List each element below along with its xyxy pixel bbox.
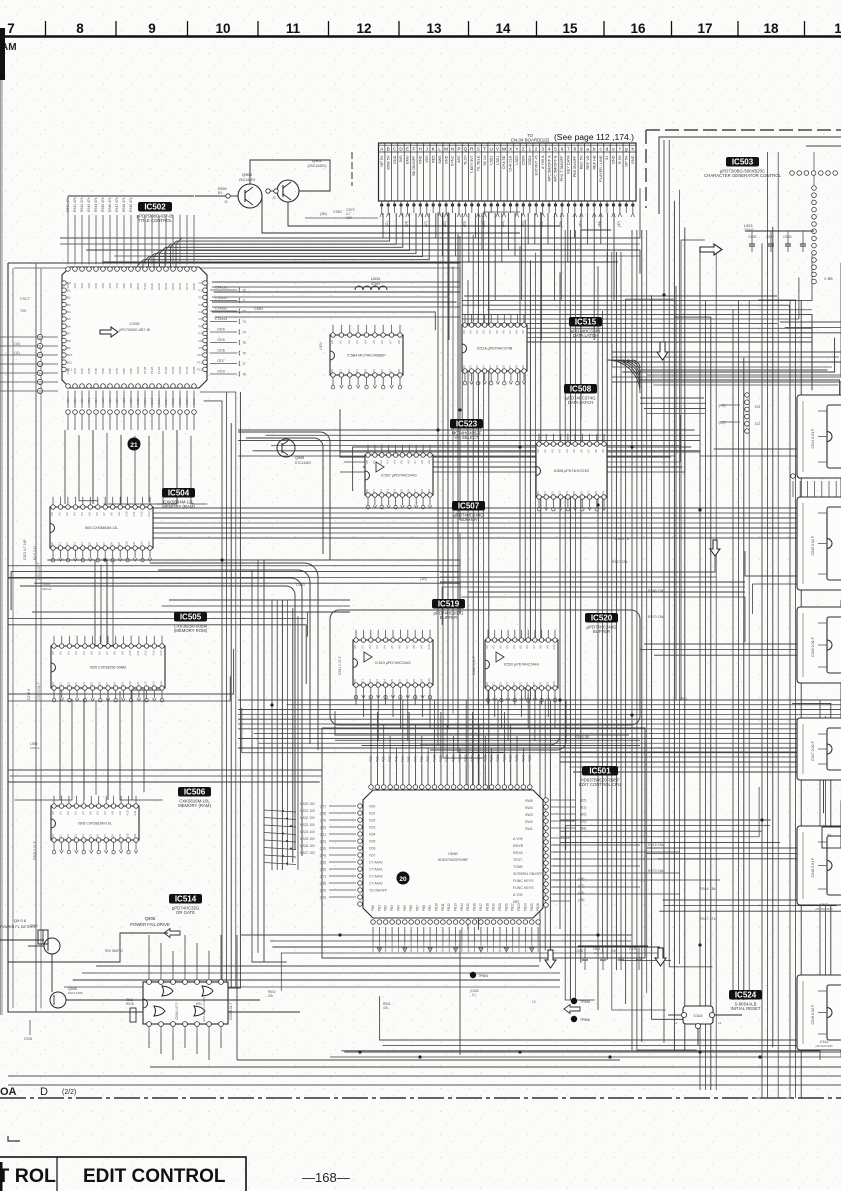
svg-text:A2: A2 (379, 460, 383, 464)
svg-text:D1: D1 (372, 489, 376, 493)
right edge DIP 3 (797, 607, 841, 683)
svg-text:D0: D0 (51, 682, 55, 686)
bus 1052 (344, 1051, 841, 1053)
svg-text:P11B: P11B (143, 367, 147, 374)
svg-text:D2: D2 (379, 489, 383, 493)
svg-text:PH2-T 5M/OFF: PH2-T 5M/OFF (560, 155, 564, 182)
svg-text:IC503: IC503 (732, 158, 754, 167)
svg-text:OD6: OD6 (217, 349, 224, 353)
svg-text:IT ROL: IT ROL (0, 1165, 56, 1187)
bus 447 ext (714, 448, 835, 450)
svg-text:L504: L504 (371, 276, 381, 281)
svg-text:A14: A14 (159, 650, 163, 656)
svg-text:(28): (28) (320, 881, 326, 885)
svg-text:D9: D9 (420, 679, 424, 683)
svg-text:A8: A8 (397, 340, 401, 344)
svg-text:P40: P40 (394, 756, 398, 762)
IC501 bottom pins (371, 920, 376, 925)
IC label IC520 (585, 613, 618, 623)
svg-text:15: 15 (562, 21, 578, 36)
svg-text:A5: A5 (519, 645, 523, 649)
svg-text:K180: K180 (192, 283, 196, 290)
svg-text:P150: P150 (464, 754, 468, 762)
IC502 QFP body (62, 267, 207, 388)
svg-text:C5B3: C5B3 (254, 307, 263, 311)
test point TP506 (571, 1016, 577, 1022)
svg-text:A10: A10 (126, 810, 130, 816)
svg-text:A0: A0 (536, 449, 540, 453)
svg-text:D6: D6 (501, 365, 505, 369)
svg-text:(MEMORY ROM): (MEMORY ROM) (174, 628, 208, 633)
svg-text:D905: D905 (30, 924, 38, 928)
svg-text:(29): (29) (320, 888, 326, 892)
svg-text:P2B: P2B (80, 368, 84, 374)
svg-text:D8: D8 (594, 491, 598, 495)
svg-text:PB17: PB17 (479, 903, 483, 911)
svg-text:SW2: SW2 (525, 820, 533, 824)
bus 770 left (8, 769, 322, 771)
IC503 pin column (812, 186, 817, 191)
bottom title box (0, 1157, 246, 1191)
svg-text:INITIAL RESET: INITIAL RESET (731, 1006, 761, 1011)
svg-text:11: 11 (286, 21, 301, 36)
svg-text:Q909: Q909 (295, 456, 304, 460)
bus 935 (241, 934, 631, 936)
svg-text:SW5: SW5 (438, 156, 442, 164)
svg-text:J2: J2 (272, 196, 276, 200)
IC506 RAM DIP (51, 796, 139, 854)
svg-text:76: 76 (242, 351, 246, 355)
svg-text:A0: A0 (51, 811, 55, 815)
IC label IC501 (582, 766, 618, 776)
Q909 transistor (277, 439, 295, 457)
svg-text:R544 15k: R544 15k (700, 887, 716, 891)
cap cluster below CPU (578, 945, 648, 947)
svg-text:PB6: PB6 (409, 905, 413, 911)
IC502 top rail (68, 195, 194, 197)
svg-text:12: 12 (356, 21, 371, 36)
svg-text:VD SELECT: VD SELECT (455, 435, 479, 440)
svg-text:DTC144EX: DTC144EX (295, 461, 312, 465)
svg-text:A Y09: A Y09 (513, 893, 523, 897)
svg-text:D8: D8 (539, 682, 543, 686)
svg-text:R517 4Tk: R517 4Tk (700, 917, 716, 921)
svg-text:C5B2: C5B2 (333, 210, 342, 214)
bus 370 right (640, 370, 828, 388)
svg-text:5V5: 5V5 (399, 156, 403, 163)
svg-text:T50µB: T50µB (744, 228, 753, 232)
svg-text:R544 47k: R544 47k (94, 197, 98, 212)
IC501 left wire fan from edge (264, 810, 296, 812)
svg-text:(11): (11) (14, 351, 20, 355)
svg-text:A2: A2 (550, 449, 554, 453)
IC503 decoupling caps (745, 230, 814, 232)
svg-text:(45): (45) (578, 898, 584, 902)
column 222 (204, 401, 222, 988)
svg-text:F2: F2 (198, 296, 202, 300)
svg-text:F11: F11 (197, 360, 202, 364)
svg-text:RDYA: RDYA (513, 851, 523, 855)
svg-text:(61): (61) (580, 806, 586, 810)
svg-text:D4: D4 (565, 491, 569, 495)
IC501 left bracket column (329, 805, 356, 807)
svg-text:PB3: PB3 (390, 905, 394, 911)
IC label IC515 (569, 317, 602, 327)
svg-text:A0: A0 (353, 645, 357, 649)
svg-text:D12: D12 (140, 541, 144, 547)
svg-text:Q9 0 6: Q9 0 6 (14, 918, 27, 923)
svg-text:D6: D6 (380, 369, 384, 373)
svg-text:R546 47k: R546 47k (108, 197, 112, 212)
svg-text:A6: A6 (501, 330, 505, 334)
svg-text:A3: A3 (375, 645, 379, 649)
svg-text:D4: D4 (81, 834, 85, 838)
svg-text:h: h (632, 146, 635, 151)
svg-text:A1: A1 (372, 460, 376, 464)
svg-text:MS22 100: MS22 100 (300, 816, 315, 820)
svg-text:A12: A12 (140, 511, 144, 517)
svg-text:C52B: C52B (748, 235, 757, 239)
svg-text:P200: P200 (496, 754, 500, 762)
svg-text:11: 11 (38, 344, 42, 348)
svg-text:(10): (10) (14, 342, 20, 346)
svg-text:A5: A5 (399, 460, 403, 464)
svg-text:10 10V: 10 10V (630, 951, 639, 955)
svg-text:D4: D4 (488, 365, 492, 369)
svg-text:D11: D11 (136, 681, 140, 687)
svg-text:MS26 100: MS26 100 (300, 844, 315, 848)
svg-text:EDIT CONTROL CPU: EDIT CONTROL CPU (579, 782, 621, 787)
svg-text:EXT/INT +5: EXT/INT +5 (534, 156, 538, 176)
svg-text:L5G4: L5G4 (319, 342, 323, 350)
IC502 top stubs / resistors (67, 215, 69, 265)
bus 398 right (640, 397, 704, 399)
IC label IC502 (138, 202, 172, 212)
svg-text:D4: D4 (82, 682, 86, 686)
column 762 (761, 243, 763, 1098)
svg-text:D: D (40, 1086, 48, 1098)
svg-text:GND: GND (419, 155, 423, 164)
svg-text:MS20 100: MS20 100 (300, 802, 315, 806)
svg-text:OD7: OD7 (217, 359, 224, 363)
svg-text:R546 1S: R546 1S (615, 537, 630, 541)
svg-text:22k: 22k (268, 994, 274, 998)
svg-text:7: 7 (567, 146, 570, 151)
IC501 top stubs (370, 765, 372, 784)
svg-text:A13: A13 (151, 650, 155, 656)
svg-text:F9: F9 (198, 346, 202, 350)
transistor Q903 (238, 184, 262, 208)
svg-text:A3: A3 (558, 449, 562, 453)
svg-text:A4: A4 (81, 811, 85, 815)
svg-text:D0: D0 (51, 834, 55, 838)
svg-text:ODA: ODA (217, 328, 225, 332)
svg-text:D5: D5 (495, 365, 499, 369)
svg-text:X: X (509, 146, 512, 151)
svg-text:D5: D5 (90, 682, 94, 686)
svg-text:PB9: PB9 (428, 905, 432, 911)
svg-text:PB18: PB18 (485, 903, 489, 911)
svg-text:µPD74HC4066: µPD74HC4066 (815, 1044, 833, 1048)
svg-text:L5D0: L5D0 (515, 156, 519, 165)
svg-text:0.): 0.) (472, 993, 476, 997)
svg-text:R547 47k: R547 47k (115, 197, 119, 212)
svg-text:(3B): (3B) (320, 212, 327, 216)
svg-text:PB16: PB16 (473, 903, 477, 911)
arrow big right mid (100, 327, 118, 337)
svg-text:P170: P170 (477, 754, 481, 762)
svg-text:D8: D8 (397, 369, 401, 373)
svg-text:D4: D4 (393, 489, 397, 493)
svg-text:9: 9 (148, 21, 156, 36)
svg-text:P130: P130 (452, 754, 456, 762)
svg-text:B4: B4 (67, 310, 71, 314)
svg-text:A7: A7 (587, 449, 591, 453)
svg-text:P220: P220 (509, 754, 513, 762)
column 540 (539, 700, 541, 962)
right bus 352 (612, 351, 841, 353)
svg-text:8: 8 (76, 21, 84, 36)
svg-text:A6: A6 (97, 651, 101, 655)
svg-text:D8: D8 (514, 365, 518, 369)
svg-text:C503 4.7 16P: C503 4.7 16P (23, 539, 27, 560)
svg-text:R549 47k: R549 47k (129, 197, 133, 212)
svg-text:Y: Y (515, 146, 518, 151)
svg-text:D11: D11 (132, 541, 136, 547)
svg-text:D0: D0 (330, 369, 334, 373)
svg-text:P80: P80 (420, 756, 424, 762)
svg-text:6: 6 (561, 146, 564, 151)
svg-text:20: 20 (399, 876, 407, 883)
svg-text:D0: D0 (365, 489, 369, 493)
svg-text:D0: D0 (536, 491, 540, 495)
bracket pins near IC503 (722, 404, 740, 406)
svg-text:APC 5M/OFF A: APC 5M/OFF A (547, 155, 551, 182)
svg-text:RE5: RE5 (431, 156, 435, 163)
svg-text:TIL 5ELE: TIL 5ELE (477, 155, 481, 171)
svg-text:PB11: PB11 (441, 903, 445, 911)
svg-text:I/O0: I/O0 (369, 805, 376, 809)
svg-text:(30): (30) (320, 895, 326, 899)
svg-text:D3: D3 (375, 679, 379, 683)
upper right bus (464, 295, 777, 297)
svg-text:SW5: SW5 (525, 799, 533, 803)
svg-text:A11: A11 (136, 650, 140, 655)
svg-text:F4: F4 (198, 310, 202, 314)
svg-text:A4: A4 (364, 340, 368, 344)
svg-text:TS ON/OFF: TS ON/OFF (369, 889, 387, 893)
connector CN-34 strip (379, 143, 637, 201)
svg-text:V BB: V BB (824, 277, 833, 281)
svg-text:CHA CLK: CHA CLK (509, 155, 513, 172)
svg-text:R570 15k: R570 15k (648, 615, 664, 619)
long bottom rails (150, 1066, 841, 1068)
svg-text:9: 9 (580, 146, 583, 151)
IC label IC503 (726, 157, 759, 167)
svg-text:A4: A4 (565, 449, 569, 453)
svg-text:A5: A5 (88, 811, 92, 815)
svg-text:IC5B4 MC74HC4066EP: IC5B4 MC74HC4066EP (347, 354, 386, 358)
svg-text:D1: D1 (543, 491, 547, 495)
svg-text:D0: D0 (50, 542, 54, 546)
svg-text:A5: A5 (390, 645, 394, 649)
svg-text:P5B: P5B (101, 368, 105, 374)
svg-text:I506 CXK5816M-10L: I506 CXK5816M-10L (78, 822, 112, 826)
svg-text:(17): (17) (320, 804, 326, 808)
wire Q902 loop (250, 160, 330, 191)
svg-text:A5C: A5C (457, 155, 461, 163)
svg-text:CTAxx0: CTAxx0 (215, 286, 228, 290)
IC503 region border (659, 137, 841, 214)
svg-text:SCREEN ON/OFF: SCREEN ON/OFF (513, 872, 543, 876)
svg-text:J1: J1 (224, 200, 228, 204)
svg-text:K40: K40 (94, 283, 98, 289)
svg-text:D9: D9 (120, 682, 124, 686)
svg-text:P70: P70 (413, 756, 417, 762)
svg-text:A8: A8 (113, 651, 117, 655)
svg-text:A6: A6 (397, 645, 401, 649)
svg-text:(26): (26) (320, 867, 326, 871)
IC502 bottom pins (66, 384, 71, 389)
svg-text:A1: A1 (59, 811, 63, 815)
svg-text:30k: 30k (827, 833, 832, 837)
svg-text:SYNC: SYNC (451, 155, 455, 166)
svg-text:PB10: PB10 (435, 903, 439, 911)
box left smudge (0, 1162, 3, 1191)
svg-text:P12B: P12B (150, 367, 154, 374)
svg-text:C508 0.01 F: C508 0.01 F (33, 841, 37, 860)
bus 508 (63, 507, 798, 509)
CPU right out lines (553, 844, 640, 846)
svg-text:A3: A3 (505, 645, 509, 649)
svg-text:D1: D1 (492, 682, 496, 686)
svg-text:P16B: P16B (178, 367, 182, 374)
svg-text:P60: P60 (407, 756, 411, 762)
svg-text:D7: D7 (413, 489, 417, 493)
svg-text:P6B: P6B (108, 368, 112, 374)
svg-text:A13: A13 (147, 511, 151, 517)
svg-text:D10: D10 (552, 681, 556, 687)
svg-text:D5: D5 (372, 369, 376, 373)
bus 572 ext (745, 551, 841, 576)
IC505 to IC506 columns (59, 690, 61, 800)
svg-text:P180: P180 (483, 754, 487, 762)
IC502 bottom stub fan (67, 391, 69, 409)
svg-text:D7: D7 (508, 365, 512, 369)
svg-text:D3: D3 (482, 365, 486, 369)
svg-text:PB25: PB25 (530, 903, 534, 911)
IC514 OR DIP (143, 982, 228, 1024)
svg-text:D6: D6 (397, 679, 401, 683)
svg-text:CT AA42: CT AA42 (369, 875, 383, 879)
svg-text:PB13: PB13 (454, 903, 458, 911)
IC label IC519 (432, 599, 465, 609)
svg-text:C92B: C92B (24, 1037, 32, 1041)
svg-text:(2SC144EX): (2SC144EX) (307, 164, 326, 168)
svg-text:A7: A7 (413, 460, 417, 464)
svg-text:A9: A9 (420, 645, 424, 649)
svg-text:D6: D6 (525, 682, 529, 686)
svg-text:D7: D7 (389, 369, 393, 373)
svg-text:BUFFER: BUFFER (440, 615, 457, 620)
svg-text:A8: A8 (514, 330, 518, 334)
svg-text:A9: A9 (545, 645, 549, 649)
number badge 20 (397, 872, 410, 885)
svg-text:HD6B: HD6B (448, 852, 458, 856)
small remnant above box (8, 1136, 20, 1141)
right edge sub box (822, 827, 841, 848)
svg-text:I/O4: I/O4 (369, 833, 376, 837)
svg-text:TP506: TP506 (580, 1018, 590, 1022)
svg-text:2SC1740S: 2SC1740S (68, 991, 83, 995)
svg-text:C547 0.02 F: C547 0.02 F (811, 740, 815, 761)
IC519 buffer DIP (353, 630, 433, 699)
svg-text:B0: B0 (67, 281, 71, 285)
svg-text:B1: B1 (67, 288, 71, 292)
svg-text:CT AA41: CT AA41 (369, 868, 383, 872)
svg-text:MS27 100: MS27 100 (300, 851, 315, 855)
svg-text:PB21: PB21 (504, 903, 508, 911)
svg-text:D1: D1 (338, 369, 342, 373)
svg-text:F1: F1 (198, 288, 202, 292)
svg-text:D3: D3 (74, 682, 78, 686)
svg-text:I/O5: I/O5 (369, 840, 376, 844)
svg-text:P13B: P13B (157, 367, 161, 374)
svg-text:K50: K50 (101, 283, 105, 289)
svg-text:A2: A2 (66, 651, 70, 655)
svg-text:D7: D7 (587, 491, 591, 495)
svg-text:IC519: IC519 (438, 600, 460, 609)
svg-text:A7: A7 (103, 811, 107, 815)
svg-text:C544 0.01 F: C544 0.01 F (811, 428, 815, 449)
svg-text:D14: D14 (159, 681, 163, 687)
svg-text:2SC144EX: 2SC144EX (239, 178, 257, 182)
svg-text:W: W (502, 146, 507, 151)
svg-text:D3: D3 (355, 369, 359, 373)
svg-text:A3: A3 (482, 330, 486, 334)
column 664 (663, 140, 665, 1043)
svg-text:(60): (60) (580, 813, 586, 817)
svg-text:D7: D7 (102, 542, 106, 546)
IC503 bottom pin row (791, 474, 796, 479)
svg-text:OP 5V: OP 5V (380, 155, 384, 167)
svg-text:C51B: C51B (783, 235, 792, 239)
svg-text:D6: D6 (579, 491, 583, 495)
svg-text:(47): (47) (617, 221, 621, 227)
svg-text:CT AA43: CT AA43 (369, 882, 383, 886)
IC502 bottom second pin row (66, 410, 71, 415)
svg-text:IC507 µPD74HC244G: IC507 µPD74HC244G (381, 474, 417, 478)
IC502 right arrow pins CTA (210, 289, 237, 291)
svg-text:13: 13 (426, 21, 442, 36)
svg-text:I505 CXK38256-00BM: I505 CXK38256-00BM (90, 666, 126, 670)
svg-text:P10: P10 (375, 756, 379, 762)
svg-text:EDIT CONTROL: EDIT CONTROL (83, 1166, 226, 1187)
svg-text:(49): (49) (718, 403, 726, 408)
svg-text:P14B: P14B (164, 367, 168, 374)
svg-text:A11: A11 (133, 810, 137, 815)
svg-text:R570 15k: R570 15k (648, 869, 664, 873)
svg-text:A Y09 A: A Y09 A (541, 155, 545, 169)
column 598 (597, 266, 599, 1010)
svg-text:A3: A3 (72, 512, 76, 516)
svg-text:C53B: C53B (575, 949, 583, 953)
svg-text:P4B: P4B (94, 368, 98, 374)
IC502 right bus (212, 281, 460, 283)
bottom mid box borders (236, 935, 238, 1060)
svg-text:P190: P190 (490, 754, 494, 762)
svg-text:A7: A7 (389, 340, 393, 344)
